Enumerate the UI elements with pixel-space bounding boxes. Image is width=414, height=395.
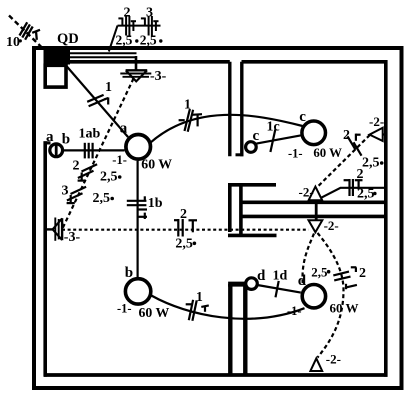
socket 2 bottom wall [310, 358, 322, 371]
svg-text:d: d [298, 273, 307, 289]
svg-text:b: b [125, 265, 133, 281]
wire incoming service dashed [9, 16, 46, 52]
svg-text:-1-: -1- [112, 153, 127, 167]
marker 1c wire [270, 130, 275, 153]
svg-text:2: 2 [343, 128, 350, 143]
svg-text:60 W: 60 W [139, 305, 170, 320]
socket 2 down triangle hall [309, 220, 323, 232]
callout line top [118, 25, 161, 27]
svg-text:1: 1 [184, 98, 191, 113]
wall middle stub A [228, 183, 276, 187]
switch ab [50, 144, 63, 157]
switch d [246, 278, 258, 290]
svg-text:2,5: 2,5 [140, 33, 157, 48]
wall middle vertical V1 [228, 183, 232, 232]
distribution box QD [44, 50, 71, 65]
svg-text:2: 2 [73, 159, 80, 174]
svg-text:-2-: -2- [299, 185, 314, 200]
svg-text:2,5: 2,5 [362, 156, 380, 171]
wall partition b/d left line [228, 284, 232, 375]
wall top inner right segment [242, 60, 388, 64]
wire switch c to lamp c [256, 135, 300, 143]
svg-text:1c: 1c [267, 120, 280, 135]
svg-text:3: 3 [62, 184, 69, 199]
svg-text:-2-: -2- [326, 351, 341, 366]
socket 2 up triangle hall [309, 187, 323, 201]
wire switch ab to lamp a [63, 149, 125, 151]
svg-text:-1-: -1- [288, 147, 303, 161]
callout group 3 marks [141, 16, 159, 36]
svg-text:2: 2 [357, 167, 364, 182]
lamp b [125, 279, 150, 304]
lamp d [302, 285, 325, 308]
wire lamp a to lamp b [137, 161, 139, 278]
svg-text:2: 2 [124, 6, 131, 21]
svg-text:2,5: 2,5 [175, 237, 193, 252]
wall outer rectangle [34, 48, 402, 388]
svg-text:60 W: 60 W [141, 156, 172, 171]
svg-text:a: a [46, 129, 54, 145]
svg-text:d: d [257, 268, 266, 284]
svg-text:1: 1 [105, 80, 112, 95]
wall pier below QD [45, 65, 66, 87]
wire connector through wall [315, 201, 318, 220]
svg-text:2,5: 2,5 [311, 264, 328, 279]
svg-text:c: c [299, 109, 306, 125]
wall right inner [384, 60, 388, 377]
marker 2 wires on horizontal dashed [174, 219, 197, 237]
marker 3 wires on diagonal [67, 187, 87, 203]
socket circuit3 wall left [46, 218, 62, 241]
svg-text:2,5: 2,5 [116, 33, 133, 48]
svg-text:1: 1 [196, 290, 203, 305]
svg-text:QD: QD [57, 31, 79, 47]
svg-text:2,5: 2,5 [357, 187, 375, 202]
marker 2 wires on hall wire [344, 179, 363, 196]
wire dashed down triangle to lamp d [303, 234, 314, 285]
svg-text:1d: 1d [273, 269, 288, 284]
callout group 2 marks [118, 16, 136, 36]
wall door jamb stub at switch ab [44, 141, 51, 144]
svg-text:60 W: 60 W [313, 146, 342, 160]
wire curve lamp b to lamp d [151, 296, 304, 319]
svg-text:-3-: -3- [64, 230, 81, 245]
marker 2 wires on diagonal [78, 164, 98, 180]
wall left inner lower [43, 141, 47, 377]
callout leader slant [109, 26, 118, 52]
svg-text:-2-: -2- [324, 218, 339, 233]
marker 2 wires on b-d curve [186, 300, 209, 321]
marker 2 wires on c-room dashed [348, 134, 362, 156]
svg-text:1b: 1b [148, 196, 163, 211]
lamp a [126, 135, 151, 160]
wall partition a/c left line [228, 62, 231, 156]
wall middle C to right wall [241, 215, 388, 219]
svg-text:-1-: -1- [117, 302, 132, 316]
svg-text:a: a [120, 121, 128, 137]
socket 2 right wall [370, 128, 383, 141]
lamp c [302, 121, 326, 145]
wall top inner left segment [44, 60, 230, 64]
switch c [246, 142, 257, 153]
marker 2 wires on QD-a [87, 95, 108, 106]
wire QD to lamp a [66, 66, 128, 138]
wire dashed circuit3 diagonal [62, 79, 134, 230]
marker 3 wires 1ab [85, 143, 93, 159]
svg-text:2,5: 2,5 [100, 170, 118, 185]
wire switch d to lamp d [257, 285, 301, 293]
wall bottom inner [44, 373, 388, 377]
svg-text:-3-: -3- [150, 69, 167, 84]
wall partition b/d right line [243, 284, 247, 375]
svg-text:3: 3 [146, 6, 153, 21]
marker 2 wires on a-c curve [179, 109, 202, 132]
marker 1d wire [276, 281, 279, 297]
wire count slashes on service line [20, 22, 41, 40]
wire dashed circuit3 horizontal [62, 229, 309, 231]
wire curve lamp a to switch c [151, 115, 303, 142]
svg-text:1ab: 1ab [79, 127, 101, 142]
svg-text:b: b [62, 132, 70, 148]
wall partition a/c right line [240, 62, 243, 156]
svg-text:2,5: 2,5 [93, 191, 111, 206]
svg-text:10: 10 [6, 35, 20, 50]
svg-text:60 W: 60 W [330, 301, 359, 316]
wire drop to socket 3 top [135, 56, 138, 70]
wire dashed arc right of lamp d [318, 233, 344, 358]
socket circuit3 ceiling top [120, 70, 151, 81]
wall middle B to right wall [241, 201, 388, 205]
svg-text:2: 2 [180, 207, 187, 222]
wire dashed socket right to up triangle [316, 135, 370, 188]
marker 2 wires on arc [333, 267, 357, 289]
wall middle stub D [228, 234, 277, 238]
wall partition a/c bottom cap [236, 153, 244, 156]
svg-text:2: 2 [359, 266, 366, 281]
wire up triangle to right wall [321, 188, 386, 198]
svg-text:-2-: -2- [369, 114, 384, 129]
wall partition b/d top cap [228, 282, 247, 287]
wire A along top wall [69, 52, 137, 54]
wall middle vertical V2 [239, 185, 243, 236]
marker 1b wires [127, 196, 147, 219]
svg-text:c: c [253, 128, 260, 144]
wire B along top wall [69, 56, 137, 58]
